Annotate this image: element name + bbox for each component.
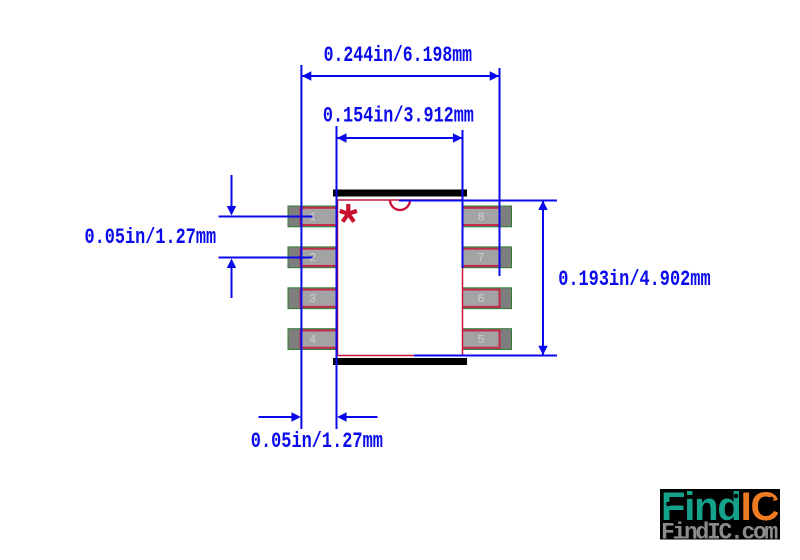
lead 1 [301, 208, 339, 225]
svg-text:0.154in/3.912mm: 0.154in/3.912mm [323, 104, 474, 129]
svg-text:4: 4 [309, 333, 316, 347]
lead 4 [301, 331, 339, 348]
lead 6 [462, 290, 500, 307]
logo circuit dot on C lower [769, 509, 773, 513]
pad 5 [462, 329, 512, 350]
arrowhead up 0.193 [538, 201, 547, 211]
svg-text:FindIC.com: FindIC.com [661, 520, 778, 546]
dimension extension line right of 0.154 [462, 130, 464, 268]
top black bar [333, 190, 467, 197]
bottom dim right line [343, 416, 378, 418]
arrowhead down pitch [227, 206, 236, 216]
extension line top of 0.193 [399, 200, 557, 202]
svg-text:0.05in/1.27mm: 0.05in/1.27mm [85, 225, 217, 250]
dimension extension line left of 0.244 [300, 65, 302, 429]
lead 3 [301, 290, 339, 307]
pin-1 notch semicircle [390, 200, 410, 210]
bottom black bar [333, 358, 467, 365]
lead 7 [462, 249, 500, 266]
FindIC logo background [660, 489, 780, 540]
dimension line 0.154in [338, 137, 463, 139]
arrowhead right bottom dim [291, 412, 301, 421]
dimension line 0.193in vertical [542, 201, 544, 355]
svg-text:8: 8 [478, 210, 485, 224]
pointer line to pin 1 [219, 216, 314, 218]
IC body outline [338, 200, 463, 356]
lead 5 [462, 331, 500, 348]
logo circuit dot on C upper [769, 497, 773, 501]
pad 7 [462, 247, 512, 268]
logo circuit dot on F [666, 502, 671, 507]
pad 1 [288, 206, 338, 227]
svg-text:3: 3 [309, 292, 316, 306]
svg-text:0.244in/6.198mm: 0.244in/6.198mm [324, 43, 472, 68]
svg-text:6: 6 [478, 292, 485, 306]
lead 8 [462, 208, 500, 225]
svg-text:1: 1 [309, 210, 316, 224]
arrowhead up pitch [227, 259, 236, 269]
pad 3 [288, 288, 338, 309]
svg-text:0.193in/4.902mm: 0.193in/4.902mm [558, 267, 711, 292]
svg-text:5: 5 [478, 333, 485, 347]
svg-text:2: 2 [309, 251, 316, 265]
svg-text:0.05in/1.27mm: 0.05in/1.27mm [251, 429, 383, 454]
pad 6 [462, 288, 512, 309]
arrowhead left 0.244 [302, 71, 312, 80]
pad 8 [462, 206, 512, 227]
dimension extension line left of 0.154 [336, 126, 338, 429]
logo circuit dot on n [706, 512, 711, 517]
pointer line to pin 2 [219, 257, 314, 259]
arrowhead right 0.244 [490, 71, 500, 80]
arrowhead left bottom dim [337, 412, 347, 421]
logo circuit dot on d [734, 494, 739, 499]
lead 2 [301, 249, 339, 266]
dimension extension line right of 0.244 [499, 68, 501, 276]
pitch arrow lower shaft [231, 265, 233, 298]
pad 2 [288, 247, 338, 268]
bottom dim left line [259, 416, 296, 418]
arrowhead left 0.154 [337, 133, 347, 142]
pin-1 marker asterisk [340, 204, 357, 222]
extension line bottom of 0.193 [414, 355, 557, 357]
dimension line 0.244in [302, 75, 499, 77]
arrowhead right 0.154 [453, 133, 463, 142]
arrowhead down 0.193 [538, 346, 547, 356]
svg-text:7: 7 [478, 251, 485, 265]
pitch arrow upper shaft [231, 175, 233, 209]
pad 4 [288, 329, 338, 350]
